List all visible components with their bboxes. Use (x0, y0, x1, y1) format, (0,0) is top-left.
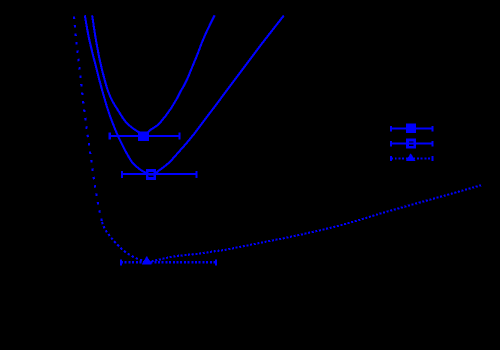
wide solid chi-square curve (open-square fit) (85, 15, 284, 174)
error bar right tick (215, 259, 217, 265)
legend entry 3: dotted errorbar sample with ticks (391, 156, 432, 161)
legend entry 2: solid errorbar sample with ticks (391, 141, 432, 146)
error bar left tick (121, 171, 123, 178)
error bar right tick (195, 171, 197, 178)
error bar right tick (179, 132, 181, 139)
dotted chi-square curve: shallow right tail (148, 185, 481, 261)
narrow solid chi-square curve (filled-square fit) (92, 15, 215, 134)
legend entry 3 filled triangle (406, 153, 416, 161)
legend entry 1: solid errorbar sample with ticks (391, 126, 432, 131)
error bar of open-square point (122, 173, 196, 175)
legend entry 1 filled square (406, 124, 416, 133)
error bar of filled-square point (110, 135, 180, 137)
error bar left tick (120, 259, 122, 265)
error bar left tick (109, 132, 111, 139)
dotted chi-square curve: bend near minimum (102, 222, 148, 262)
open square marker on wide curve (147, 171, 155, 179)
filled triangle marker on dotted curve (142, 256, 152, 265)
filled square marker on narrow curve (138, 131, 149, 141)
legend entry 2 open square (408, 140, 415, 147)
dotted error bar of triangle point (121, 261, 216, 263)
dotted chi-square curve: steep left descent (74, 17, 102, 223)
